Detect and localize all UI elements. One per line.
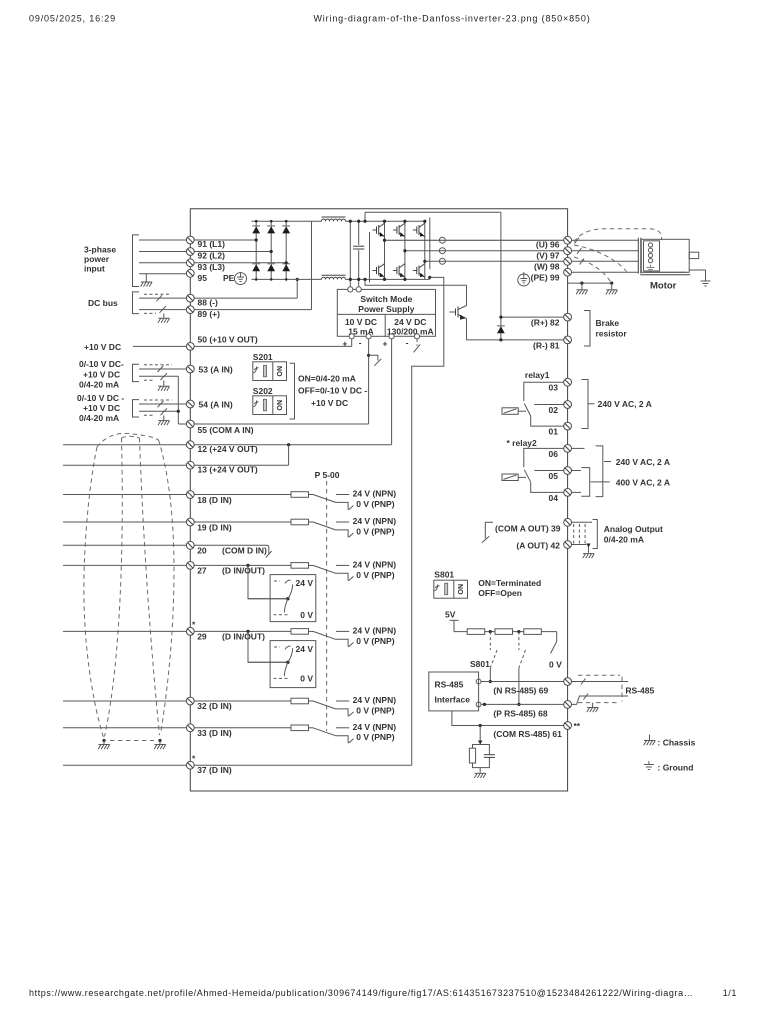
svg-text:S801: S801 [434, 570, 454, 580]
svg-text:(U) 96: (U) 96 [536, 239, 560, 249]
svg-text:24 V DC: 24 V DC [394, 317, 426, 327]
svg-text:(R+) 82: (R+) 82 [531, 318, 560, 328]
svg-text:+: + [383, 339, 388, 349]
svg-text:54 (A IN): 54 (A IN) [199, 400, 233, 410]
svg-text:400 V AC, 2 A: 400 V AC, 2 A [616, 478, 670, 488]
svg-text:resistor: resistor [596, 329, 628, 339]
svg-text:Switch Mode: Switch Mode [360, 294, 412, 304]
svg-text:RS-485: RS-485 [435, 680, 464, 690]
svg-text:(PE) 99: (PE) 99 [531, 273, 560, 283]
svg-text:OFF=0/-10 V DC -: OFF=0/-10 V DC - [298, 386, 367, 396]
svg-text:-: - [406, 338, 409, 348]
svg-text:24 V: 24 V [296, 578, 314, 588]
svg-text:24 V: 24 V [296, 644, 314, 654]
svg-text:20: 20 [197, 546, 207, 556]
svg-text:0/4-20 mA: 0/4-20 mA [79, 380, 119, 390]
svg-text:09/05/2025, 16:29: 09/05/2025, 16:29 [29, 14, 116, 24]
svg-text:18 (D IN): 18 (D IN) [197, 495, 232, 505]
svg-text:50 (+10 V OUT): 50 (+10 V OUT) [198, 335, 258, 345]
svg-text:ON=Terminated: ON=Terminated [478, 578, 541, 588]
svg-text:0/-10 V DC -: 0/-10 V DC - [77, 393, 124, 403]
svg-text:0/4-20 mA: 0/4-20 mA [604, 535, 644, 545]
svg-text:-: - [359, 338, 362, 348]
svg-text:S801: S801 [470, 659, 490, 669]
svg-text:+10 V DC: +10 V DC [84, 342, 121, 352]
svg-text:+10 V DC: +10 V DC [83, 369, 120, 379]
svg-text:37 (D IN): 37 (D IN) [197, 765, 232, 775]
svg-text:10 V DC: 10 V DC [345, 317, 377, 327]
svg-text:240 V AC, 2 A: 240 V AC, 2 A [616, 457, 670, 467]
svg-text:input: input [84, 264, 105, 274]
svg-text:Motor: Motor [650, 281, 677, 292]
svg-text:: Chassis: : Chassis [658, 738, 696, 748]
svg-text:https://www.researchgate.net/p: https://www.researchgate.net/profile/Ahm… [29, 988, 693, 998]
svg-text:06: 06 [549, 449, 559, 459]
svg-text:**: ** [574, 721, 581, 731]
svg-text:0 V: 0 V [549, 660, 562, 670]
svg-text:(W) 98: (W) 98 [534, 262, 560, 272]
svg-text:02: 02 [549, 405, 559, 415]
svg-text:13 (+24 V OUT): 13 (+24 V OUT) [198, 465, 258, 475]
svg-text:01: 01 [549, 427, 559, 437]
svg-text:95: 95 [198, 273, 208, 283]
svg-text:(A OUT) 42: (A OUT) 42 [516, 541, 560, 551]
svg-text:0 V: 0 V [300, 674, 313, 684]
svg-text:0/4-20 mA: 0/4-20 mA [79, 413, 119, 423]
svg-text:(COM A OUT) 39: (COM A OUT) 39 [495, 524, 561, 534]
svg-text:(D IN/OUT): (D IN/OUT) [222, 566, 265, 576]
svg-text:93 (L3): 93 (L3) [198, 262, 226, 272]
svg-text:Power Supply: Power Supply [358, 304, 414, 314]
svg-text:Analog Output: Analog Output [604, 524, 663, 534]
svg-text:: Ground: : Ground [658, 763, 694, 773]
svg-text:(COM D IN): (COM D IN) [222, 546, 267, 556]
svg-text:5V: 5V [445, 610, 456, 620]
svg-text:(V) 97: (V) 97 [536, 251, 559, 261]
svg-text:03: 03 [549, 383, 559, 393]
svg-text:53 (A IN): 53 (A IN) [199, 365, 233, 375]
svg-text:33 (D IN): 33 (D IN) [197, 728, 232, 738]
svg-text:12 (+24 V OUT): 12 (+24 V OUT) [198, 444, 258, 454]
svg-text:+: + [342, 339, 347, 349]
svg-text:ON: ON [277, 366, 284, 377]
svg-text:P 5-00: P 5-00 [315, 470, 340, 480]
svg-text:(D IN/OUT): (D IN/OUT) [222, 632, 265, 642]
svg-text:32 (D IN): 32 (D IN) [197, 701, 232, 711]
svg-text:88 (-): 88 (-) [198, 298, 218, 308]
svg-text:55 (COM A IN): 55 (COM A IN) [198, 425, 254, 435]
svg-text:S201: S201 [253, 352, 273, 362]
svg-text:(P RS-485) 68: (P RS-485) 68 [493, 709, 547, 719]
svg-text:RS-485: RS-485 [625, 686, 654, 696]
svg-text:29: 29 [197, 632, 207, 642]
svg-text:(N RS-485) 69: (N RS-485) 69 [493, 686, 548, 696]
svg-text:Interface: Interface [435, 695, 471, 705]
svg-text:DC bus: DC bus [88, 298, 118, 308]
svg-text:89 (+): 89 (+) [198, 309, 221, 319]
svg-text:240 V AC, 2 A: 240 V AC, 2 A [598, 399, 652, 409]
svg-text:ON=0/4-20 mA: ON=0/4-20 mA [298, 373, 356, 383]
svg-text:(COM RS-485) 61: (COM RS-485) 61 [493, 729, 562, 739]
svg-text:power: power [84, 254, 110, 264]
svg-text:+10 V DC: +10 V DC [83, 403, 120, 413]
svg-text:+10 V DC: +10 V DC [311, 398, 348, 408]
svg-text:S202: S202 [253, 386, 273, 396]
svg-text:relay1: relay1 [525, 370, 550, 380]
svg-text:0 V: 0 V [300, 610, 313, 620]
svg-text:1/1: 1/1 [723, 988, 737, 998]
svg-text:05: 05 [549, 471, 559, 481]
svg-text:Wiring-diagram-of-the-Danfoss-: Wiring-diagram-of-the-Danfoss-inverter-2… [313, 14, 590, 24]
svg-text:92 (L2): 92 (L2) [198, 251, 226, 261]
svg-text:OFF=Open: OFF=Open [478, 588, 522, 598]
svg-text:91 (L1): 91 (L1) [198, 239, 226, 249]
svg-text:Brake: Brake [596, 318, 620, 328]
svg-text:ON: ON [458, 584, 465, 595]
svg-text:19 (D IN): 19 (D IN) [197, 523, 232, 533]
svg-text:ON: ON [277, 400, 284, 411]
svg-text:04: 04 [549, 493, 559, 503]
svg-text:0/-10 V DC-: 0/-10 V DC- [79, 359, 124, 369]
svg-text:* relay2: * relay2 [507, 438, 538, 448]
svg-text:PE: PE [223, 273, 235, 283]
svg-text:3-phase: 3-phase [84, 245, 116, 255]
svg-text:(R-) 81: (R-) 81 [533, 340, 560, 350]
svg-text:27: 27 [197, 566, 207, 576]
